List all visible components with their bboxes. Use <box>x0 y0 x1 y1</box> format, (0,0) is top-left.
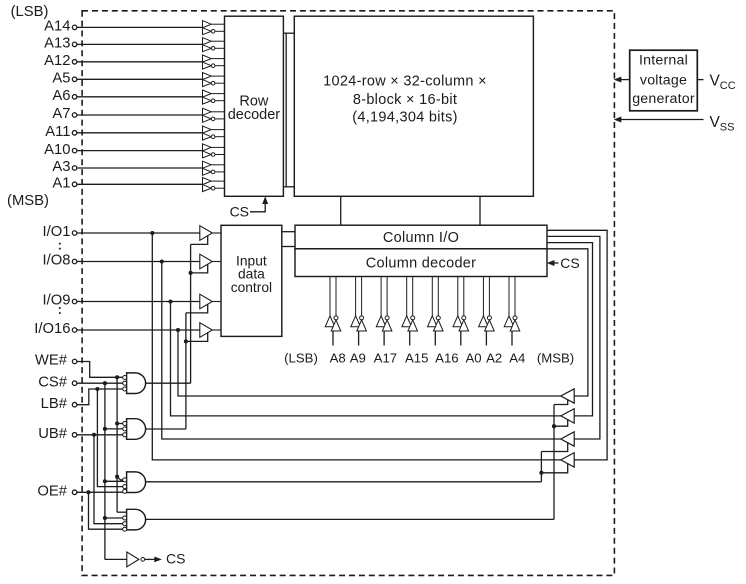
svg-text:A15: A15 <box>405 350 428 365</box>
wire: lower-byte write enable bus (gate G1 output riser) <box>190 244 192 383</box>
svg-text:8-block × 16-bit: 8-block × 16-bit <box>353 92 457 108</box>
wire: Column I/O data 3 to output buffer <box>547 243 593 416</box>
wire CS# bus down <box>104 383 106 559</box>
wire: Column I/O data 4 to output buffer <box>547 249 588 396</box>
svg-text:A14: A14 <box>44 19 70 35</box>
svg-text:decoder: decoder <box>228 107 281 123</box>
svg-text:(MSB): (MSB) <box>537 350 574 365</box>
wire: lower output enable riser <box>540 452 542 482</box>
svg-text:A10: A10 <box>44 142 70 158</box>
pin A12 <box>44 53 202 69</box>
pin A11 <box>45 124 202 140</box>
svg-text:A12: A12 <box>44 53 70 69</box>
output buffer T2 (I/O9) <box>561 409 574 423</box>
input buffer I/O1 <box>200 226 221 241</box>
svg-text:generator: generator <box>632 91 695 107</box>
wire WE# to gate G1 <box>77 362 123 378</box>
wire: upper-byte write enable bus (gate G2 output riser) <box>185 313 187 429</box>
output buffer T4 (I/O1) <box>561 453 574 467</box>
svg-text:control: control <box>231 280 272 295</box>
chip boundary (dashed border) <box>82 11 614 576</box>
wire G2 output <box>146 428 186 430</box>
wire: Input data control to Column I/O (lower) <box>282 246 295 248</box>
svg-text:I/O9: I/O9 <box>43 293 71 309</box>
block: memory cell array <box>294 16 533 196</box>
junction CS# branch <box>103 381 107 385</box>
wire: I/O9 data line to output buffer T2 <box>171 302 562 416</box>
junction I/O1 data tap <box>150 231 154 235</box>
svg-text:Column decoder: Column decoder <box>366 256 477 272</box>
wire WE# bus down <box>116 377 118 512</box>
junction: upper-byte write enable <box>184 339 188 343</box>
svg-text:A9: A9 <box>350 350 366 365</box>
svg-text:A6: A6 <box>52 88 70 104</box>
pin I/O16 <box>34 321 200 337</box>
inverter U-CS <box>127 552 161 567</box>
wire: upper output enable riser <box>553 405 555 520</box>
wire: T4 enable <box>541 463 567 473</box>
junction WE# at G3 <box>115 475 119 479</box>
ellipsis I/O2..I/O7 <box>59 243 61 250</box>
wire: Column I/O data 1 to output buffer <box>547 230 607 460</box>
and-gate G4 (WE#-CS#-UB#-OE# output upper) <box>123 509 146 531</box>
address buffer pair A10 <box>203 144 225 158</box>
svg-text:voltage: voltage <box>640 73 687 89</box>
wire: write enable to I/O1 buffer <box>191 236 208 245</box>
address buffer pair A11 <box>203 126 225 140</box>
wire CS# to gate G1 <box>77 382 123 384</box>
and-gate G1 (WE#-CS#-LB# write lower) <box>123 373 146 394</box>
junction WE# at G2 <box>115 421 119 425</box>
svg-text:SS: SS <box>720 121 735 133</box>
address buffer pair A7 <box>203 108 225 122</box>
svg-text:CS#: CS# <box>38 374 68 390</box>
column address buffer pair A0 <box>453 277 469 346</box>
wire UB# bus down to G4 <box>94 435 123 524</box>
block: Column decoder <box>295 249 547 277</box>
address buffer pair A12 <box>203 55 225 69</box>
wire LB# bus down to G3 <box>97 389 122 487</box>
svg-text:A1: A1 <box>52 176 70 192</box>
column address buffer pair A4 <box>504 277 520 346</box>
pin I/O1 <box>43 224 200 240</box>
column address buffer pair A2 <box>479 277 495 346</box>
block: Column I/O <box>295 225 547 249</box>
wire: write enable to I/O16 buffer <box>186 333 208 342</box>
address buffer pair A3 <box>203 161 225 175</box>
junction I/O8 data tap <box>160 259 164 263</box>
svg-text:LB#: LB# <box>41 396 68 412</box>
wire UB# to gate G2 <box>77 434 123 436</box>
svg-text:Internal: Internal <box>639 53 688 69</box>
svg-text:CS: CS <box>230 203 249 219</box>
svg-text:(4,194,304 bits): (4,194,304 bits) <box>352 109 458 125</box>
svg-text:A5: A5 <box>52 71 70 87</box>
column address buffer pair A8 <box>325 277 341 346</box>
svg-text:A4: A4 <box>509 350 525 365</box>
pin VSS <box>615 114 735 133</box>
svg-text:A7: A7 <box>52 106 70 122</box>
bus: row decoder to array connector <box>283 33 294 187</box>
wire: Input data control to Column I/O (upper) <box>282 231 295 233</box>
output buffer T1 (I/O16) <box>561 389 574 403</box>
wire OE# bus down to G4 <box>89 492 123 529</box>
ellipsis I/O10..I/O15 <box>59 307 61 314</box>
net CS into Column decoder <box>548 255 580 271</box>
pin A5 <box>52 71 202 87</box>
pin UB# <box>38 426 77 442</box>
svg-text:A3: A3 <box>52 159 70 175</box>
pin A6 <box>52 88 202 104</box>
wire CS# to inverter <box>105 558 127 560</box>
junction CS# at G2 <box>103 427 107 431</box>
svg-text:A17: A17 <box>374 350 397 365</box>
column address buffer pair A9 <box>351 277 367 346</box>
svg-text:A13: A13 <box>44 36 70 52</box>
junction I/O9 data tap <box>168 299 172 303</box>
output buffer T3 (I/O8) <box>561 432 574 446</box>
wire G4 output to output-enable riser <box>146 518 554 520</box>
block: Input data control <box>221 225 282 336</box>
svg-text:A8: A8 <box>330 350 346 365</box>
wire: I/O16 data line to output buffer T1 <box>178 330 561 396</box>
input buffer I/O8 <box>200 254 221 269</box>
junction I/O16 data tap <box>176 328 180 332</box>
svg-text:WE#: WE# <box>35 353 68 369</box>
wire G3 output to output-enable riser <box>146 481 542 483</box>
address buffer pair A5 <box>203 73 225 87</box>
svg-text:(MSB): (MSB) <box>7 193 49 209</box>
pin CS# <box>38 374 77 390</box>
junction UB# branch <box>92 433 96 437</box>
svg-text:A2: A2 <box>486 350 502 365</box>
pin VCC <box>697 72 735 91</box>
junction WE# branch <box>115 375 119 379</box>
wire: T3 enable <box>541 442 567 451</box>
wire: internal voltage out <box>615 77 630 82</box>
junction: lower-byte write enable <box>189 271 193 275</box>
wire: Column I/O data 2 to output buffer <box>547 236 600 439</box>
input buffer I/O9 <box>200 294 221 309</box>
svg-text:(LSB): (LSB) <box>11 4 49 20</box>
block: Internal voltage generator <box>630 50 698 111</box>
input buffer I/O16 <box>200 323 221 338</box>
pin A10 <box>44 142 202 158</box>
svg-text:1024-row × 32-column ×: 1024-row × 32-column × <box>323 74 487 90</box>
address buffer pair A6 <box>203 90 225 104</box>
address buffer pair A13 <box>203 38 225 52</box>
address buffer pair A14 <box>203 21 225 35</box>
wire: I/O8 data line to output buffer T3 <box>162 262 561 440</box>
wire OE# to gate G3 <box>77 491 123 493</box>
wire: T2 enable <box>554 419 568 426</box>
svg-text:I/O8: I/O8 <box>43 253 71 269</box>
svg-text:UB#: UB# <box>38 426 68 442</box>
column address buffer pair A16 <box>428 277 444 346</box>
pin A3 <box>52 159 202 175</box>
and-gate G3 (WE#-CS#-LB#-OE# output lower) <box>123 472 146 494</box>
column address buffer pair A17 <box>376 277 392 346</box>
svg-text:OE#: OE# <box>37 484 67 500</box>
wire: T1 enable <box>554 399 568 404</box>
net CS into Row decoder <box>230 198 268 220</box>
svg-text:A16: A16 <box>435 350 458 365</box>
pin I/O8 <box>43 253 200 269</box>
wire WE# into gate G4 <box>117 511 127 513</box>
wire: array to Column I/O (right) <box>479 196 481 225</box>
svg-text:CC: CC <box>720 80 736 92</box>
svg-text:(LSB): (LSB) <box>284 350 318 365</box>
wire: write enable to I/O8 buffer <box>191 264 208 273</box>
pin A13 <box>44 36 202 52</box>
pin A14 <box>44 19 202 35</box>
junction: lower output enable <box>539 471 543 475</box>
svg-text:Column I/O: Column I/O <box>383 230 459 246</box>
wire: I/O1 data line to output buffer T4 <box>152 233 561 460</box>
wire: array to Column I/O (left) <box>340 196 342 225</box>
junction LB# branch <box>95 387 99 391</box>
svg-text:I/O1: I/O1 <box>43 224 71 240</box>
address buffer pair A1 <box>203 178 225 192</box>
pin WE# <box>35 353 77 369</box>
svg-text:CS: CS <box>560 255 579 271</box>
svg-text:A0: A0 <box>466 350 482 365</box>
pin OE# <box>37 484 76 500</box>
block: Row decoder U-ROW <box>225 16 284 196</box>
svg-text:A11: A11 <box>45 124 70 140</box>
and-gate G2 (WE#-CS#-UB# write upper) <box>123 419 146 440</box>
junction: upper output enable <box>552 424 556 428</box>
wire LB# to gate G1 <box>77 389 123 405</box>
pin A7 <box>52 106 202 122</box>
junction OE# branch <box>86 490 90 494</box>
pin A1 <box>52 176 202 192</box>
column address buffer pair A15 <box>402 277 418 346</box>
junction CS# at G4 <box>103 516 107 520</box>
svg-text:I/O16: I/O16 <box>34 321 70 337</box>
wire G1 output <box>146 382 191 384</box>
pin I/O9 <box>43 293 200 309</box>
pin LB# <box>41 396 77 412</box>
wire: write enable to I/O9 buffer <box>186 304 208 313</box>
junction CS# at G3 <box>103 479 107 483</box>
svg-text:CS: CS <box>166 551 185 567</box>
